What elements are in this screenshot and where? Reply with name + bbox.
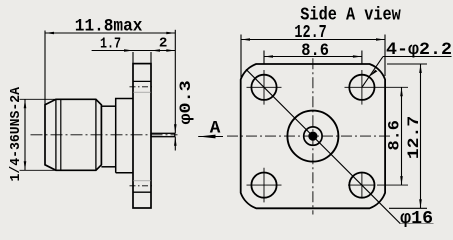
svg-text:4-φ2.2: 4-φ2.2 bbox=[386, 40, 452, 60]
svg-text:12.7: 12.7 bbox=[294, 23, 326, 43]
svg-text:φ16: φ16 bbox=[400, 209, 433, 228]
svg-text:2: 2 bbox=[159, 35, 168, 51]
svg-text:1/4-36UNS-2A: 1/4-36UNS-2A bbox=[8, 86, 24, 181]
svg-text:12.7: 12.7 bbox=[405, 116, 423, 159]
svg-text:φ0.3: φ0.3 bbox=[177, 80, 195, 124]
svg-text:11.8max: 11.8max bbox=[75, 17, 143, 36]
svg-text:A: A bbox=[210, 118, 221, 138]
svg-text:8.6: 8.6 bbox=[385, 120, 403, 150]
svg-text:8.6: 8.6 bbox=[301, 41, 329, 61]
svg-text:1.7: 1.7 bbox=[100, 37, 121, 53]
